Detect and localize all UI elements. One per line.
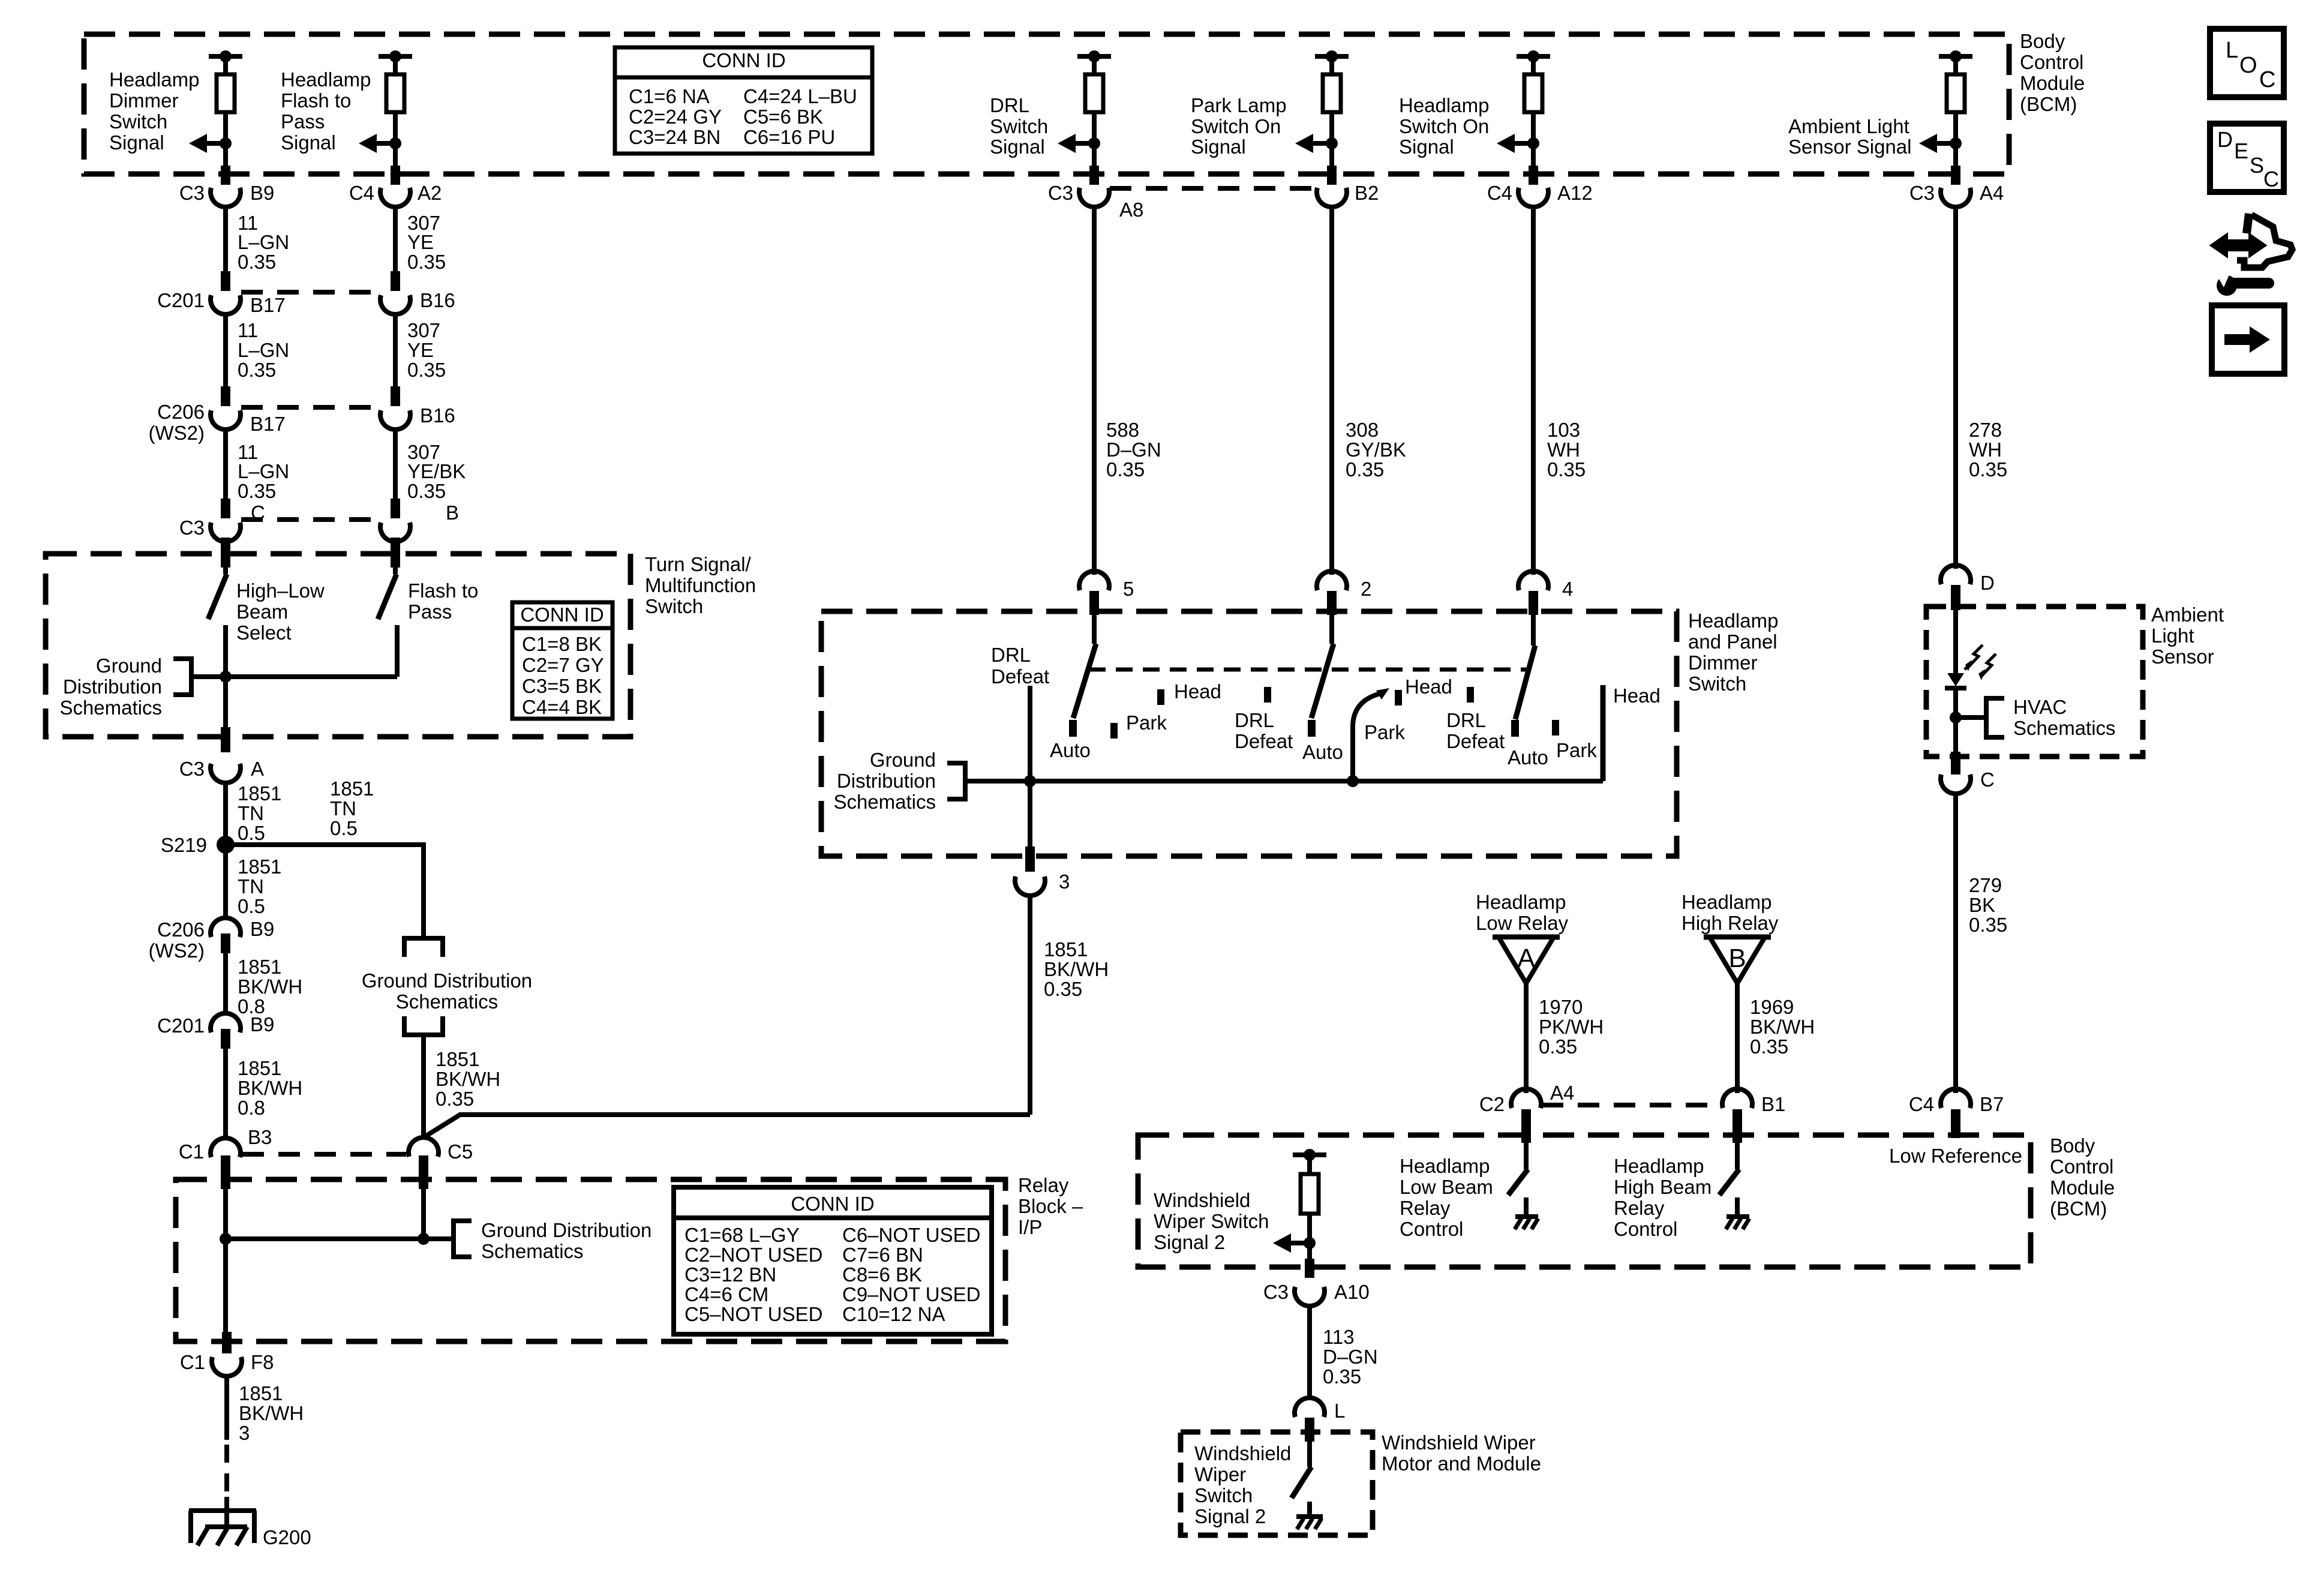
wiper switch wire and blade xyxy=(1307,1439,1312,1467)
switch 1 wire and blade (DRL switch) xyxy=(1092,615,1097,644)
HVAC wire xyxy=(1956,715,1986,720)
signal arrow (left) xyxy=(1295,134,1313,153)
connector C3 C xyxy=(211,523,241,542)
crossing stub C5 into relay block xyxy=(419,1155,428,1189)
svg-text:D: D xyxy=(1980,572,1995,594)
svg-text:Dimmer: Dimmer xyxy=(1688,652,1757,674)
svg-text:C2=7 GY: C2=7 GY xyxy=(522,654,604,676)
wire xyxy=(393,112,398,166)
svg-text:A4: A4 xyxy=(1980,182,2004,204)
ground G200 xyxy=(189,1497,256,1545)
label Headlamp Switch On Signal xyxy=(1399,94,1489,158)
svg-text:Control: Control xyxy=(2050,1155,2113,1178)
svg-text:C1=68 L–GY: C1=68 L–GY xyxy=(684,1224,800,1246)
stub into dimmer box xyxy=(1327,591,1337,615)
label Windshield Wiper Switch Signal 2 xyxy=(1154,1189,1269,1253)
junction dot xyxy=(1950,712,1962,724)
svg-text:Body: Body xyxy=(2020,30,2065,52)
Headlamp and Panel Dimmer Switch box xyxy=(821,611,1677,856)
svg-text:Low Reference: Low Reference xyxy=(1889,1145,2022,1167)
connector C3 A8 xyxy=(1079,188,1109,207)
svg-text:C3=5 BK: C3=5 BK xyxy=(522,675,602,697)
svg-text:HVAC: HVAC xyxy=(2013,696,2067,718)
ground distribution bracket xyxy=(454,1221,472,1257)
Auto contact 1 xyxy=(1069,720,1077,737)
svg-text:C4=24 L–BU: C4=24 L–BU xyxy=(743,85,857,107)
svg-text:Body: Body xyxy=(2050,1134,2095,1157)
label Ground Distribution Schematics xyxy=(833,749,936,813)
svg-text:1851: 1851 xyxy=(330,778,374,800)
svg-text:C1: C1 xyxy=(180,1351,205,1373)
dashed link A8 to B2 xyxy=(1110,186,1316,191)
dashed link C to B xyxy=(241,517,382,522)
label Headlamp Low Relay xyxy=(1476,891,1569,934)
junction dot xyxy=(220,671,232,683)
wire into photodiode xyxy=(1953,607,1958,674)
label Windshield Wiper Motor and Module xyxy=(1382,1431,1541,1475)
svg-text:0.35: 0.35 xyxy=(1323,1365,1361,1388)
svg-text:B17: B17 xyxy=(250,413,286,435)
branch wire 1851 TN 0.5 xyxy=(226,845,424,938)
Windshield Wiper Motor and Module box xyxy=(1181,1432,1373,1535)
svg-text:Schematics: Schematics xyxy=(833,791,936,813)
stub C2-A4 into BCM xyxy=(1521,1109,1531,1143)
wire 307 YE/BK 0.35 (B16 to B) xyxy=(393,431,398,500)
connector C3 A4 xyxy=(1941,188,1971,207)
mechanical coupling dashed line xyxy=(1089,668,1530,672)
svg-text:279: 279 xyxy=(1969,874,2002,896)
svg-text:Park: Park xyxy=(1364,721,1405,743)
svg-text:C7=6 BN: C7=6 BN xyxy=(842,1244,923,1266)
svg-text:Schematics: Schematics xyxy=(2013,717,2116,739)
svg-text:0.35: 0.35 xyxy=(1539,1035,1577,1058)
connector L xyxy=(1295,1398,1325,1417)
svg-text:Control: Control xyxy=(2020,51,2083,73)
wire below blade xyxy=(223,625,228,737)
wire 308 GY/BK 0.35 xyxy=(1329,208,1334,575)
svg-text:1851: 1851 xyxy=(436,1048,479,1070)
svg-text:3: 3 xyxy=(239,1422,250,1444)
svg-text:1851: 1851 xyxy=(1044,938,1088,960)
svg-text:DRL: DRL xyxy=(1446,709,1486,731)
svg-text:Park: Park xyxy=(1126,712,1167,734)
wire xyxy=(1953,56,1958,74)
wire below photodiode xyxy=(1953,688,1958,757)
svg-text:WH: WH xyxy=(1547,439,1580,461)
svg-text:A8: A8 xyxy=(1119,199,1143,221)
svg-text:0.35: 0.35 xyxy=(1044,978,1082,1000)
svg-text:A4: A4 xyxy=(1550,1082,1574,1104)
stub into wiper module box xyxy=(1305,1418,1314,1442)
svg-text:Beam: Beam xyxy=(236,601,288,623)
svg-text:B9: B9 xyxy=(250,1013,274,1035)
svg-text:11: 11 xyxy=(238,319,258,341)
svg-text:Park: Park xyxy=(1556,739,1597,761)
ground distribution wire xyxy=(191,674,397,679)
svg-text:Headlamp: Headlamp xyxy=(1688,610,1778,632)
svg-text:Module: Module xyxy=(2020,72,2085,94)
junction dot xyxy=(389,50,401,62)
wire 1851 BK/WH 0.35 (pin3 down) xyxy=(1028,897,1032,1115)
BCM pin 4: node tick xyxy=(1315,54,1349,59)
svg-text:Auto: Auto xyxy=(1050,739,1091,761)
svg-text:Windshield: Windshield xyxy=(1154,1189,1250,1211)
junction dot xyxy=(1527,137,1539,149)
crossing stub xyxy=(1529,166,1538,185)
svg-text:5: 5 xyxy=(1123,578,1134,600)
junction dot xyxy=(1304,1149,1316,1161)
svg-text:L: L xyxy=(2226,38,2238,63)
wire 1851 TN 0.5 (S219 down) xyxy=(223,845,228,918)
DRL defeat contact 2 xyxy=(1264,687,1271,703)
svg-text:Headlamp: Headlamp xyxy=(1614,1155,1704,1177)
svg-text:0.35: 0.35 xyxy=(1106,458,1145,481)
svg-text:Headlamp: Headlamp xyxy=(1399,94,1489,116)
junction dot xyxy=(1527,50,1539,62)
svg-text:0.35: 0.35 xyxy=(1547,458,1586,481)
svg-text:B9: B9 xyxy=(250,182,274,204)
BCM module box (top) xyxy=(84,34,2009,174)
svg-text:YE/BK: YE/BK xyxy=(407,460,466,482)
svg-text:Flash to: Flash to xyxy=(281,89,351,112)
Auto contact 2 xyxy=(1308,720,1316,737)
stub into ambient sensor box xyxy=(1951,585,1960,610)
service icon: vehicle outline xyxy=(2247,214,2249,233)
svg-text:Low Beam: Low Beam xyxy=(1400,1176,1493,1198)
svg-text:Auto: Auto xyxy=(1508,746,1548,769)
svg-text:0.35: 0.35 xyxy=(436,1088,474,1110)
svg-text:Pass: Pass xyxy=(408,601,452,623)
connector C201 B9 xyxy=(211,1013,241,1032)
svg-text:C5=6 BK: C5=6 BK xyxy=(743,106,823,128)
svg-text:Turn Signal/: Turn Signal/ xyxy=(645,553,752,575)
wire 278 WH 0.35 xyxy=(1953,208,1958,569)
BCM pin 2: node tick xyxy=(379,54,412,59)
junction dot xyxy=(1950,137,1962,149)
dashed link B3 to C5 xyxy=(242,1152,406,1157)
svg-text:Signal 2: Signal 2 xyxy=(1194,1505,1266,1527)
svg-text:Pass: Pass xyxy=(281,110,325,133)
svg-text:278: 278 xyxy=(1969,419,2002,441)
crossing stub (pin 3 out of dimmer box) xyxy=(1025,846,1035,872)
label DRL Defeat (top) xyxy=(991,644,1049,688)
DESC box xyxy=(2210,124,2284,192)
svg-text:C2: C2 xyxy=(1479,1093,1505,1115)
label Relay Block - I/P xyxy=(1018,1174,1083,1238)
svg-text:0.35: 0.35 xyxy=(407,251,446,273)
svg-text:Ambient: Ambient xyxy=(2151,604,2224,626)
svg-text:S: S xyxy=(2250,153,2264,178)
resistor (headlamp switch on signal) xyxy=(1524,74,1542,112)
svg-text:Switch: Switch xyxy=(1688,673,1746,695)
svg-text:Select: Select xyxy=(236,622,292,644)
svg-text:Schematics: Schematics xyxy=(396,990,499,1013)
svg-text:C8=6 BK: C8=6 BK xyxy=(842,1263,922,1286)
svg-text:C3: C3 xyxy=(179,182,205,204)
photodiode (ambient light sensor) xyxy=(1947,673,1964,686)
svg-text:C1: C1 xyxy=(179,1140,204,1163)
connector C201 B17 xyxy=(211,295,241,314)
wire xyxy=(1307,1214,1312,1259)
resistor (flash to pass signal) xyxy=(386,74,404,112)
svg-text:Schematics: Schematics xyxy=(481,1240,584,1262)
connector C4 A2 xyxy=(380,188,410,207)
svg-text:C2–NOT USED: C2–NOT USED xyxy=(684,1244,822,1266)
connector 5 xyxy=(1079,571,1109,590)
flash to pass switch blade xyxy=(378,574,397,619)
resistor (DRL switch signal) xyxy=(1085,74,1103,112)
svg-text:B2: B2 xyxy=(1355,182,1379,204)
svg-text:Motor and Module: Motor and Module xyxy=(1382,1452,1541,1475)
svg-text:0.35: 0.35 xyxy=(1969,458,2007,481)
svg-text:Windshield: Windshield xyxy=(1194,1442,1291,1464)
Ambient Light Sensor box xyxy=(1926,607,2143,757)
wire inside relay block (left) xyxy=(223,1187,228,1341)
svg-text:1851: 1851 xyxy=(238,855,281,878)
label Ground Distribution Schematics xyxy=(59,655,162,719)
svg-text:0.35: 0.35 xyxy=(407,480,446,502)
BCM pin 3: node tick xyxy=(1077,54,1111,59)
connector C3 B9 xyxy=(211,188,241,207)
svg-text:C9–NOT USED: C9–NOT USED xyxy=(842,1283,980,1305)
crossing stub xyxy=(1951,166,1960,185)
svg-text:Switch: Switch xyxy=(1194,1484,1253,1506)
svg-text:L: L xyxy=(1334,1400,1345,1422)
Auto contact 3 xyxy=(1511,720,1519,737)
svg-text:Wiper: Wiper xyxy=(1194,1463,1246,1485)
connector B xyxy=(380,523,410,542)
label Ground Distribution Schematics xyxy=(481,1219,651,1262)
svg-text:B: B xyxy=(1728,944,1746,973)
svg-text:C5–NOT USED: C5–NOT USED xyxy=(684,1303,822,1325)
junction dot xyxy=(1326,50,1338,62)
crossing stub xyxy=(221,166,230,185)
wire xyxy=(1531,112,1536,166)
Turn Signal / Multifunction Switch box xyxy=(46,554,630,737)
light arrows xyxy=(1968,645,1983,667)
svg-text:C4: C4 xyxy=(1909,1093,1934,1115)
wire 11 L-GN 0.35 (C201 to C206) xyxy=(223,316,228,388)
svg-text:Windshield Wiper: Windshield Wiper xyxy=(1382,1431,1536,1454)
label High-Low Beam Select xyxy=(236,580,325,644)
label DRL Defeat (switch 2) xyxy=(1235,709,1293,752)
wire xyxy=(1953,112,1958,166)
svg-text:B16: B16 xyxy=(420,289,455,311)
svg-text:C3: C3 xyxy=(179,758,205,780)
svg-text:Distribution: Distribution xyxy=(63,676,162,698)
wire 1970 PK/WH 0.35 xyxy=(1524,983,1529,1093)
wire 1851 BK/WH 3 xyxy=(224,1377,229,1440)
svg-text:BK/WH: BK/WH xyxy=(1044,958,1109,980)
svg-text:B3: B3 xyxy=(248,1126,272,1148)
svg-text:G200: G200 xyxy=(263,1526,311,1548)
svg-text:308: 308 xyxy=(1346,419,1379,441)
svg-text:Signal: Signal xyxy=(281,131,336,154)
svg-text:Distribution: Distribution xyxy=(837,770,936,792)
wire 1851 TN 0.5 (A to S219) xyxy=(223,784,228,845)
svg-text:Light: Light xyxy=(2151,625,2194,647)
HVAC bracket xyxy=(1986,698,2004,737)
svg-text:Signal: Signal xyxy=(109,131,164,154)
LOC box xyxy=(2210,29,2284,97)
svg-text:CONN ID: CONN ID xyxy=(520,604,603,626)
svg-text:C4: C4 xyxy=(349,182,374,204)
svg-text:103: 103 xyxy=(1547,419,1580,441)
wire xyxy=(1092,112,1097,166)
svg-text:Switch: Switch xyxy=(990,115,1048,137)
dashed link C201 to B16 xyxy=(241,290,382,295)
svg-text:and Panel: and Panel xyxy=(1688,631,1777,653)
connector C4 B7 xyxy=(1941,1089,1971,1108)
svg-text:C4=6 CM: C4=6 CM xyxy=(684,1283,768,1305)
junction dot xyxy=(1088,137,1100,149)
junction dot xyxy=(1088,50,1100,62)
svg-text:Relay: Relay xyxy=(1018,1174,1069,1196)
ground distribution bracket xyxy=(947,763,965,799)
wiper signal pin: node tick xyxy=(1293,1152,1326,1157)
svg-text:C201: C201 xyxy=(157,1014,205,1037)
svg-text:C201: C201 xyxy=(157,289,205,311)
svg-text:Headlamp: Headlamp xyxy=(1400,1155,1490,1177)
svg-text:1851: 1851 xyxy=(239,1382,283,1404)
svg-text:High Beam: High Beam xyxy=(1614,1176,1712,1198)
label HVAC Schematics xyxy=(2013,696,2116,739)
label Turn Signal/Multifunction Switch xyxy=(645,553,756,617)
svg-text:L–GN: L–GN xyxy=(238,231,289,253)
connector C1 B3 xyxy=(211,1138,241,1157)
crossing stub xyxy=(1305,1259,1314,1278)
svg-text:L–GN: L–GN xyxy=(238,460,289,482)
label Headlamp Low Beam Relay Control xyxy=(1400,1155,1493,1240)
svg-text:DRL: DRL xyxy=(991,644,1031,666)
svg-text:Signal: Signal xyxy=(1191,136,1246,158)
svg-text:Sensor Signal: Sensor Signal xyxy=(1788,136,1911,158)
CONN ID table (relay block) xyxy=(674,1187,992,1334)
junction dot xyxy=(1347,775,1359,787)
svg-text:Switch: Switch xyxy=(645,595,703,617)
svg-text:CONN ID: CONN ID xyxy=(702,49,785,71)
svg-text:Switch On: Switch On xyxy=(1399,115,1489,137)
crossing stub xyxy=(1089,166,1099,185)
svg-text:B1: B1 xyxy=(1761,1093,1785,1115)
diagonal from C5 xyxy=(424,1115,1030,1137)
label DRL Defeat (switch 3) xyxy=(1446,709,1505,752)
svg-text:(WS2): (WS2) xyxy=(149,939,205,962)
connector B1 xyxy=(1722,1089,1752,1108)
label Body Control Module (BCM) (bottom) xyxy=(2050,1134,2115,1220)
svg-text:Schematics: Schematics xyxy=(59,697,162,719)
label Headlamp High Beam Relay Control xyxy=(1614,1155,1712,1240)
svg-text:Low Relay: Low Relay xyxy=(1476,912,1569,934)
svg-text:B9: B9 xyxy=(250,918,274,940)
wire 1851 BK/WH 0.8 xyxy=(223,1049,228,1137)
wire 1851 BK/WH 0.35 (to C5) xyxy=(421,1035,426,1137)
connector D xyxy=(1941,565,1971,584)
crossing stub C1-B3 into relay block xyxy=(221,1155,230,1189)
junction dot xyxy=(418,1233,430,1245)
CONN ID table (BCM) xyxy=(615,47,872,154)
svg-text:WH: WH xyxy=(1969,439,2002,461)
svg-text:Block –: Block – xyxy=(1018,1195,1083,1217)
svg-text:B17: B17 xyxy=(250,294,286,316)
junction dot xyxy=(1326,137,1338,149)
svg-text:C3: C3 xyxy=(179,517,205,539)
svg-text:TN: TN xyxy=(238,802,264,824)
svg-text:4: 4 xyxy=(1562,578,1573,600)
wire xyxy=(1329,56,1334,74)
svg-text:307: 307 xyxy=(407,319,440,341)
label Ground Distribution Schematics xyxy=(362,969,532,1013)
svg-text:CONN ID: CONN ID xyxy=(791,1193,874,1215)
connector C xyxy=(1941,775,1971,794)
svg-text:Headlamp: Headlamp xyxy=(109,68,199,91)
svg-text:High–Low: High–Low xyxy=(236,580,325,602)
signal arrow (left) xyxy=(189,134,207,153)
svg-text:2: 2 xyxy=(1361,578,1371,600)
dashed link A4 to B1 xyxy=(1542,1103,1722,1107)
svg-text:Multifunction: Multifunction xyxy=(645,574,756,596)
wire inside relay block (C5) xyxy=(421,1187,426,1239)
label DRL Switch Signal xyxy=(990,94,1048,158)
junction dot xyxy=(1024,775,1036,787)
svg-text:Module: Module xyxy=(2050,1176,2115,1199)
headlamp high beam relay control switch xyxy=(1735,1139,1740,1169)
svg-text:D–GN: D–GN xyxy=(1106,439,1161,461)
svg-text:C: C xyxy=(2259,67,2275,92)
svg-text:0.35: 0.35 xyxy=(238,359,276,381)
svg-text:Flash to: Flash to xyxy=(408,580,478,602)
svg-text:Ground: Ground xyxy=(870,749,936,771)
svg-text:0.35: 0.35 xyxy=(238,480,276,502)
switch 2 wire and blade (park lamp switch) xyxy=(1329,615,1334,644)
svg-text:Ground: Ground xyxy=(96,655,162,677)
ground distribution wire (dimmer box) xyxy=(965,779,1603,784)
svg-text:B: B xyxy=(446,502,459,524)
Head contact 2 xyxy=(1395,690,1402,706)
signal arrow (left) xyxy=(1058,134,1076,153)
crossing stub xyxy=(391,166,400,185)
forward arrow box xyxy=(2212,305,2284,374)
svg-text:Signal: Signal xyxy=(1399,136,1454,158)
stub into dimmer box xyxy=(1089,591,1099,615)
junction dot xyxy=(220,50,232,62)
stub B1 into BCM xyxy=(1733,1109,1742,1143)
svg-text:Wiper Switch: Wiper Switch xyxy=(1154,1210,1269,1232)
svg-text:0.5: 0.5 xyxy=(238,822,265,844)
svg-text:C206: C206 xyxy=(157,918,205,941)
headlamp low beam relay control switch xyxy=(1524,1139,1529,1169)
stub into dimmer box xyxy=(1529,591,1538,615)
svg-text:Switch On: Switch On xyxy=(1191,115,1281,137)
wire xyxy=(223,56,228,74)
connector 2 xyxy=(1317,571,1347,590)
svg-text:C5: C5 xyxy=(448,1140,473,1163)
svg-text:C2=24 GY: C2=24 GY xyxy=(629,106,722,128)
svg-text:C: C xyxy=(2263,167,2279,191)
wire xyxy=(1307,1155,1312,1174)
Head contact 1 xyxy=(1157,689,1164,705)
DRL defeat contact 3 xyxy=(1467,687,1474,703)
stub B7 into BCM xyxy=(1951,1109,1960,1138)
svg-text:1851: 1851 xyxy=(238,782,281,804)
connector C3 A10 xyxy=(1295,1287,1325,1306)
dashed wire to ground xyxy=(224,1445,229,1512)
svg-text:A: A xyxy=(1517,944,1535,973)
svg-text:A10: A10 xyxy=(1334,1281,1370,1303)
svg-text:YE: YE xyxy=(407,231,434,253)
ground (low beam relay control) xyxy=(1515,1217,1538,1229)
label Ambient Light Sensor xyxy=(2151,604,2224,668)
